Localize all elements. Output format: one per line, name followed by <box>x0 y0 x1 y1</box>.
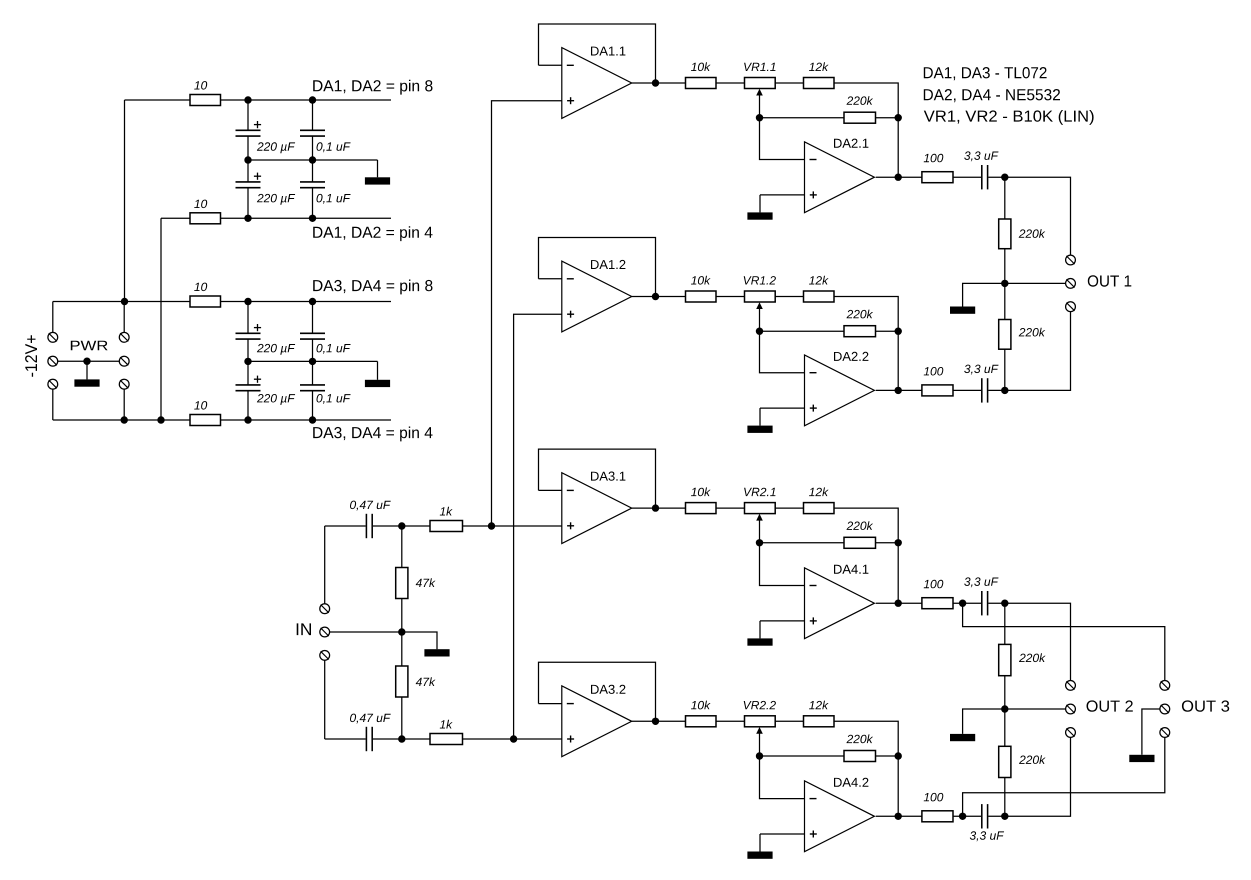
wire DA4.1 non-inverting input <box>760 620 805 622</box>
wire feedback node row DA2.1 <box>760 117 845 119</box>
wire DA2.2 output <box>876 389 922 391</box>
wire feedback loop DA1.1 <box>539 24 656 83</box>
value label 47k <box>416 578 436 587</box>
op-amp DA4.1 <box>805 568 875 639</box>
wire PWR bottom-left lead <box>52 389 54 420</box>
value label 1k <box>440 507 453 516</box>
wire divider mid-bottom <box>401 632 403 666</box>
wire cap stem <box>312 160 314 182</box>
junction <box>121 298 128 305</box>
wire divider bottom <box>401 697 403 739</box>
wire to 220k <box>1004 603 1006 644</box>
note VR1, VR2 - B10K (LIN) <box>924 110 1094 125</box>
value label 10 (rail B) <box>194 200 207 209</box>
potentiometer VR1.1 <box>745 78 776 89</box>
resistor 10k (row DA3.2) <box>686 716 717 727</box>
potentiometer VR2.2 <box>745 716 776 727</box>
junction post-cap node <box>1001 813 1008 820</box>
name label DA3.1 <box>591 472 625 481</box>
wire -V rail B left <box>161 217 190 219</box>
junction wiper node VR2.2 <box>756 752 763 759</box>
resistor 220k (row DA4.1) <box>844 537 876 548</box>
name label DA1.2 <box>591 260 625 269</box>
value label 100 <box>924 580 944 589</box>
wire 220k to bottom <box>1004 349 1006 390</box>
wire <box>775 296 803 298</box>
value label 220k <box>847 96 874 105</box>
junction <box>244 96 251 103</box>
value label 10k <box>691 276 711 285</box>
wire OUT1 mid to terminal <box>1005 282 1066 284</box>
op-amp DA3.2 (buffer) <box>562 686 632 757</box>
wire PWR top-left lead <box>52 302 54 333</box>
capacitor 3,3 uF (row DA4.1) <box>982 591 988 615</box>
ground (group2) <box>365 361 390 387</box>
wire cap stem <box>312 339 314 361</box>
wire mid rail group2 <box>248 360 378 362</box>
wire <box>716 720 745 722</box>
potentiometer VR2.1 wiper arrow <box>756 514 763 543</box>
wire input top branch right (to DA3.1 +) <box>463 525 562 527</box>
value label 10k <box>691 62 711 71</box>
wire -V rail D right <box>221 419 392 421</box>
resistor 12k (row DA1.2) <box>804 291 835 302</box>
wire to 220k <box>1004 177 1006 219</box>
capacitor 220 µF (group1 lower) <box>236 173 262 188</box>
wire <box>716 507 745 509</box>
net label DA3, DA4 = pin 4 <box>313 427 432 442</box>
capacitor 220 µF (group2 lower) <box>236 376 262 391</box>
wire DA2.2 non-inverting input <box>760 407 805 409</box>
junction OUT1 mid <box>1001 280 1008 287</box>
wire DA1.1 output <box>632 82 686 84</box>
resistor 47k (top) <box>396 568 408 599</box>
junction DA2.2 output node <box>895 387 902 394</box>
terminal IN bottom <box>320 651 330 661</box>
value label 220k <box>847 734 874 743</box>
terminal OUT1 mid <box>1066 279 1076 289</box>
wire DA3.2 output <box>632 720 686 722</box>
value label 0,1 uF <box>317 142 351 152</box>
junction <box>510 735 517 742</box>
wire <box>988 815 1005 817</box>
name label DA4.2 <box>834 778 868 787</box>
terminal OUT3 bottom <box>1160 728 1170 738</box>
junction feedback DA2.1 <box>895 114 902 121</box>
resistor 100 (row DA4.1) <box>922 598 953 609</box>
op-amp DA3.1 (buffer) <box>562 473 632 544</box>
resistor 100 (row DA2.1) <box>922 172 953 183</box>
value label 3,3 uF <box>964 365 998 375</box>
value label 12k <box>809 62 829 71</box>
junction <box>244 298 251 305</box>
terminal OUT1 top <box>1066 255 1076 265</box>
wire vertical x=124.5 (rail A to rail C) <box>124 100 126 302</box>
wire <box>953 815 981 817</box>
value label 47k <box>416 677 436 686</box>
op-amp DA4.2 <box>805 781 875 852</box>
value label 100 <box>924 154 944 163</box>
wire <box>988 176 1005 178</box>
capacitor 3,3 uF (row DA2.2) <box>982 378 988 402</box>
label PWR <box>71 341 108 351</box>
wire cap stem <box>247 188 249 219</box>
net label DA1, DA2 = pin 8 <box>313 80 432 95</box>
wire cap stem <box>247 100 249 130</box>
resistor 100 (row DA4.2) <box>922 811 953 822</box>
junction <box>309 156 316 163</box>
wire <box>988 389 1005 391</box>
terminal OUT2 bottom <box>1066 728 1076 738</box>
note DA1, DA3 - TL072 <box>924 67 1047 80</box>
wire DA4.2 non-inverting input <box>760 833 805 835</box>
junction DA2.1 output node <box>895 174 902 181</box>
wire +V rail A right <box>221 99 392 101</box>
junction feedback DA4.2 <box>895 752 902 759</box>
ground (PWR) <box>74 361 99 386</box>
wire OUT2 mid to terminal <box>1005 708 1066 710</box>
wire cap stem <box>247 361 249 385</box>
terminal PWR left mid <box>48 356 58 366</box>
terminal OUT1 bottom <box>1066 302 1076 312</box>
wire 220k to mid <box>1004 676 1006 709</box>
junction feedback DA4.1 <box>895 539 902 546</box>
name label DA2.2 <box>834 352 868 361</box>
wire cap stem <box>247 136 249 160</box>
op-amp DA1.2 (buffer) <box>562 261 632 332</box>
terminal PWR right top <box>119 332 129 342</box>
wire mid to 220k <box>1004 709 1006 746</box>
value label 220k <box>847 521 874 530</box>
junction DA1.2 output node <box>652 293 659 300</box>
value label 220k <box>1019 653 1046 662</box>
junction <box>157 416 164 423</box>
resistor 1k (bottom) <box>430 734 463 745</box>
wire 12k to DA2.2 output <box>834 297 898 391</box>
wire input bottom branch right (to DA3.2 +) <box>463 738 562 740</box>
wire cap stem <box>247 160 249 182</box>
value label 0,1 uF <box>317 394 351 404</box>
potentiometer VR2.2 wiper arrow <box>756 727 763 756</box>
value label 1k <box>440 720 453 729</box>
wire feedback loop DA3.1 <box>539 449 656 508</box>
wire feedback loop DA1.2 <box>539 238 656 297</box>
junction <box>309 416 316 423</box>
wire cap stem <box>312 391 314 420</box>
capacitor 0,47 uF (top) <box>366 514 372 538</box>
wire input bottom branch mid <box>373 738 430 740</box>
wire PWR bottom-right lead <box>123 389 125 420</box>
net label DA3, DA4 = pin 8 <box>313 280 432 295</box>
terminal IN top <box>320 604 330 614</box>
value label 0,1 uF <box>317 344 351 354</box>
resistor 220k (OUT2 upper) <box>999 644 1011 675</box>
wire -V rail B right <box>221 217 392 219</box>
wire DA2.1 output <box>876 176 922 178</box>
value label 0,47 uF <box>350 501 391 511</box>
label IN <box>297 623 311 635</box>
resistor 10 (rail C) <box>190 296 221 307</box>
value label VR1.1 <box>744 63 775 71</box>
junction PWR mid <box>83 358 90 365</box>
wire divider mid-top <box>401 599 403 633</box>
ground (DA2.2 + input) <box>747 408 772 433</box>
op-amp DA2.1 <box>805 142 875 213</box>
note DA2, DA4 - NE5532 <box>924 89 1060 102</box>
junction <box>488 522 495 529</box>
wire wiper node to DA2.2 inverting input <box>760 331 805 373</box>
ground (DA4.1 + input) <box>747 621 772 646</box>
resistor 10k (row DA3.1) <box>686 503 717 514</box>
ground (OUT2) <box>950 709 1005 741</box>
wire <box>953 389 981 391</box>
label -12V+ (rotated) <box>25 335 37 376</box>
terminal PWR left bottom <box>48 379 58 389</box>
wire -V rail D left <box>53 419 190 421</box>
junction <box>309 358 316 365</box>
wire cap stem <box>247 339 249 361</box>
wire IN top lead <box>324 526 326 604</box>
wire DA4.1 output <box>876 602 922 604</box>
capacitor 3,3 uF (row DA2.1) <box>982 165 988 189</box>
name label DA1.1 <box>591 47 625 56</box>
wire feedback loop DA3.2 <box>539 662 656 721</box>
terminal OUT3 top <box>1160 681 1170 691</box>
wire 12k to DA4.2 output <box>834 721 898 816</box>
wire 220k to mid <box>1004 249 1006 284</box>
ground (group1) <box>365 160 390 185</box>
junction wiper node VR1.1 <box>756 114 763 121</box>
capacitor 3,3 uF (row DA4.2) <box>982 804 988 828</box>
resistor 10k (row DA1.1) <box>686 78 717 89</box>
junction post-cap node <box>1001 387 1008 394</box>
name label DA3.2 <box>591 685 625 694</box>
wire DA4.2 output <box>876 815 922 817</box>
terminal PWR left top <box>48 332 58 342</box>
node OUT 1 feed top <box>1005 177 1071 255</box>
wire DA1.2 output <box>632 296 686 298</box>
value label 220 µF <box>257 394 295 405</box>
wire cap stem <box>312 188 314 219</box>
op-amp DA2.2 <box>805 355 875 426</box>
value label 220k <box>1019 229 1046 238</box>
junction feedback DA2.2 <box>895 328 902 335</box>
terminal IN mid <box>320 627 330 637</box>
ground (OUT1) <box>950 283 1005 313</box>
wire IN bottom lead <box>324 660 326 739</box>
wire feedback node row DA2.2 <box>760 330 845 332</box>
wire 12k to DA2.1 output <box>834 83 898 177</box>
wire input top branch mid <box>373 525 430 527</box>
potentiometer VR2.1 <box>745 503 776 514</box>
wire <box>988 602 1005 604</box>
value label VR2.2 <box>744 701 776 709</box>
junction <box>244 358 251 365</box>
junction DA3.1 output node <box>652 504 659 511</box>
wire feedback node row DA4.2 <box>760 755 845 757</box>
junction wiper node VR2.1 <box>756 539 763 546</box>
junction DA3.2 output node <box>652 718 659 725</box>
ground (DA4.2 + input) <box>747 834 772 859</box>
node OUT 2 feed top <box>1005 603 1071 681</box>
wire <box>775 507 803 509</box>
wire DA3.2 inverting input <box>539 703 562 705</box>
wire input bottom branch left <box>325 738 366 740</box>
name label DA4.1 <box>834 565 868 574</box>
resistor 10 (rail A) <box>190 95 221 106</box>
resistor 220k (row DA2.2) <box>844 326 876 337</box>
wire cap stem <box>312 100 314 130</box>
junction DA4.2 output node <box>895 813 902 820</box>
terminal PWR right bottom <box>119 379 129 389</box>
resistor 10k (row DA1.2) <box>686 291 717 302</box>
wire <box>953 176 981 178</box>
name label DA2.1 <box>834 139 868 148</box>
wire bus 2 (input to DA1.2 +) <box>514 314 562 739</box>
value label 10 (rail A) <box>194 81 207 90</box>
value label 0,1 uF <box>317 194 351 204</box>
value label 100 <box>924 793 944 802</box>
resistor 220k (OUT1 lower) <box>999 320 1011 350</box>
value label 0,47 uF <box>350 714 391 724</box>
resistor 12k (row DA1.1) <box>804 78 835 89</box>
capacitor 0,1 uF (group1 lower) <box>300 182 325 188</box>
wire cap stem <box>247 302 249 334</box>
terminal OUT2 top <box>1066 681 1076 691</box>
ground (IN) <box>402 632 450 657</box>
value label 3,3 uF <box>964 151 998 161</box>
junction <box>398 522 405 529</box>
terminal OUT3 mid <box>1160 704 1170 714</box>
wire input top branch left <box>325 525 366 527</box>
label OUT 2 <box>1087 700 1133 711</box>
junction DA1.1 output node <box>652 79 659 86</box>
junction post-cap node <box>1001 174 1008 181</box>
value label 220 µF <box>257 142 295 153</box>
wire PWR mid row <box>57 360 119 362</box>
wire mid to 220k <box>1004 283 1006 319</box>
junction post-cap node <box>1001 600 1008 607</box>
wire wiper node to DA4.2 inverting input <box>760 756 805 799</box>
wire wiper node to DA4.1 inverting input <box>760 543 805 586</box>
wire feedback node row DA4.1 <box>760 542 845 544</box>
wire DA3.1 inverting input <box>539 489 562 491</box>
value label VR1.2 <box>744 276 776 284</box>
junction DA4.1 output node <box>895 600 902 607</box>
wire DA1.2 inverting input <box>539 278 562 280</box>
value label 220k <box>1019 328 1046 337</box>
potentiometer VR1.2 <box>745 291 776 302</box>
wire 12k to DA4.1 output <box>834 508 898 603</box>
value label 12k <box>809 487 829 496</box>
junction <box>398 628 405 635</box>
wire +V rail A left <box>125 99 191 101</box>
value label 220 µF <box>257 194 295 205</box>
junction <box>244 215 251 222</box>
node OUT 2 feed bottom <box>1005 737 1071 816</box>
potentiometer VR1.2 wiper arrow <box>756 302 763 331</box>
resistor 10 (rail D) <box>190 415 221 426</box>
capacitor 220 µF (group1 upper) <box>236 121 262 136</box>
wire cap stem <box>312 302 314 334</box>
value label 12k <box>809 701 829 710</box>
node OUT 3 feed bottom <box>963 737 1165 816</box>
value label 10 (rail D) <box>194 401 207 410</box>
wire <box>953 602 981 604</box>
wire 220k to bottom <box>1004 778 1006 817</box>
junction OUT2 mid <box>1001 705 1008 712</box>
resistor 220k (OUT2 lower) <box>999 746 1011 777</box>
wire <box>716 82 745 84</box>
wire vertical x=161 (rail B to rail D) <box>160 218 162 420</box>
wire <box>775 720 803 722</box>
potentiometer VR1.1 wiper arrow <box>756 89 763 118</box>
value label 10k <box>691 487 711 496</box>
wire +V rail C right <box>221 301 392 303</box>
op-amp DA1.1 (buffer) <box>562 48 632 119</box>
resistor 220k (row DA2.1) <box>844 112 876 123</box>
wire bus 1 (input to DA1.1 +) <box>492 101 562 526</box>
capacitor 220 µF (group2 upper) <box>236 324 262 339</box>
wire DA1.1 inverting input <box>539 64 562 66</box>
value label 12k <box>809 276 829 285</box>
wire DA3.1 output <box>632 507 686 509</box>
wire cap stem <box>312 136 314 160</box>
junction pre-cap node (to OUT 3) <box>959 813 966 820</box>
resistor 1k (top) <box>430 521 463 532</box>
terminal OUT2 mid <box>1066 704 1076 714</box>
value label 220k <box>847 310 874 319</box>
resistor 220k (row DA4.2) <box>844 751 876 762</box>
resistor 220k (OUT1 upper) <box>999 219 1011 249</box>
junction pre-cap node (to OUT 3) <box>959 600 966 607</box>
value label 220k <box>1019 755 1046 764</box>
terminal PWR right mid <box>119 356 129 366</box>
ground (OUT3) <box>1129 709 1160 762</box>
resistor 12k (row DA3.2) <box>804 716 835 727</box>
capacitor 0,1 uF (group2 lower) <box>300 385 325 391</box>
junction <box>121 416 128 423</box>
junction <box>309 215 316 222</box>
wire +V rail C left <box>53 301 190 303</box>
value label 220 µF <box>257 344 295 355</box>
junction <box>244 156 251 163</box>
wire wiper node to DA2.1 inverting input <box>760 118 805 160</box>
wire mid rail group1 <box>248 159 378 161</box>
wire cap stem <box>247 391 249 420</box>
wire PWR top-right lead <box>123 302 125 333</box>
wire DA2.1 non-inverting input <box>760 194 805 196</box>
label OUT 3 <box>1182 700 1229 711</box>
wire divider top <box>401 526 403 568</box>
resistor 10 (rail B) <box>190 213 221 224</box>
value label 3,3 uF <box>964 577 998 587</box>
label OUT 1 <box>1088 275 1132 286</box>
junction <box>309 298 316 305</box>
wire IN mid to divider <box>329 631 402 633</box>
value label VR2.1 <box>744 488 775 496</box>
value label 3,3 uF <box>970 831 1004 841</box>
node OUT 3 feed top <box>963 603 1165 681</box>
ground (DA2.1 + input) <box>747 195 772 220</box>
wire <box>716 296 745 298</box>
resistor 47k (bottom) <box>396 666 408 697</box>
wire <box>775 82 803 84</box>
wire cap stem <box>312 361 314 385</box>
junction <box>309 96 316 103</box>
junction wiper node VR1.2 <box>756 328 763 335</box>
capacitor 0,47 uF (bottom) <box>366 727 372 751</box>
